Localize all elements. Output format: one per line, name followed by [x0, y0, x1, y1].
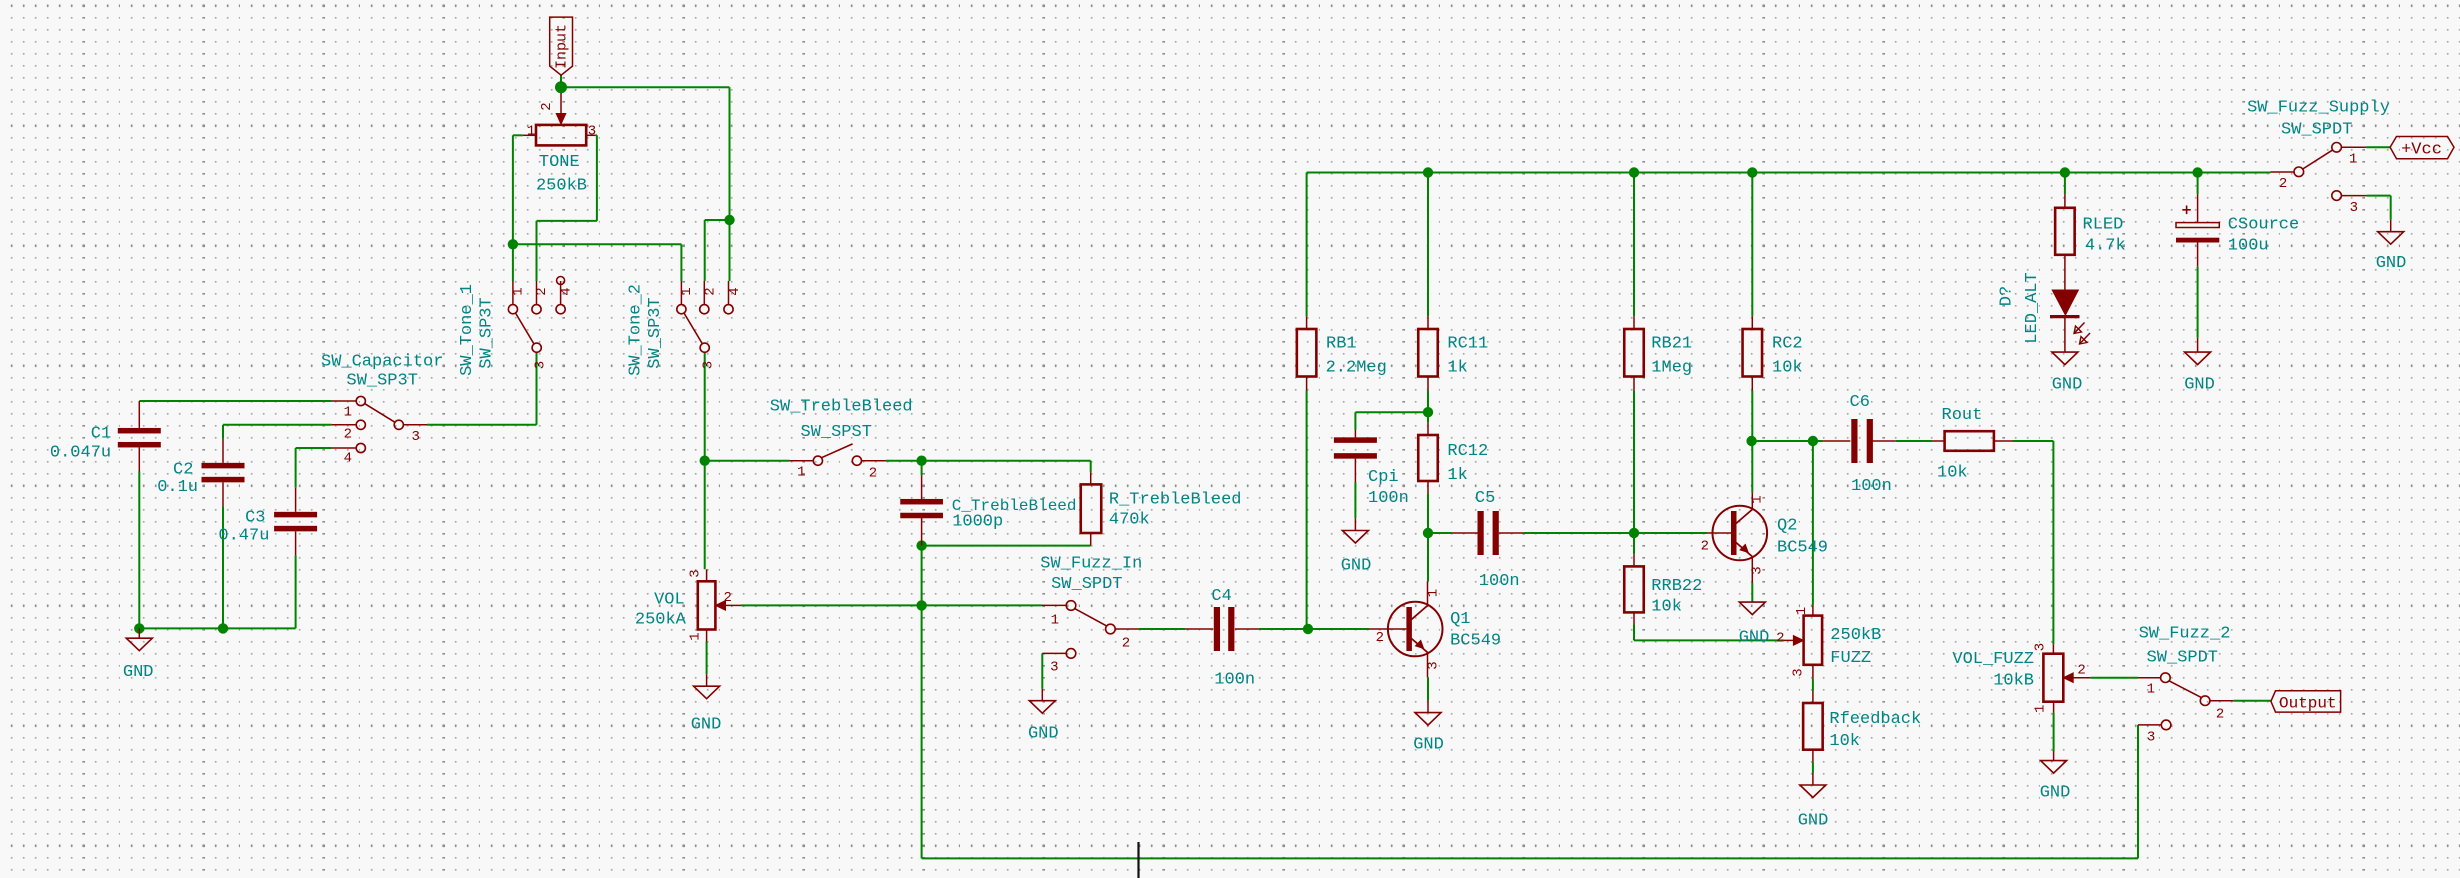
svg-text:RB1: RB1: [1326, 335, 1357, 354]
svg-text:FUZZ: FUZZ: [1830, 649, 1871, 668]
svg-text:1: 1: [797, 465, 805, 481]
svg-text:C5: C5: [1475, 489, 1495, 508]
svg-text:3: 3: [688, 569, 704, 577]
svg-text:2: 2: [2077, 662, 2085, 678]
svg-text:0.1u: 0.1u: [157, 478, 198, 497]
svg-text:BC549: BC549: [1777, 539, 1828, 558]
svg-text:2: 2: [1376, 630, 1384, 646]
svg-text:3: 3: [2032, 643, 2048, 651]
svg-text:GND: GND: [1798, 812, 1829, 831]
svg-text:3: 3: [2350, 200, 2358, 216]
svg-text:250kB: 250kB: [536, 177, 587, 196]
svg-text:0.047u: 0.047u: [50, 443, 111, 462]
svg-text:SW_SPST: SW_SPST: [801, 423, 872, 442]
svg-text:4: 4: [727, 287, 743, 295]
svg-text:3: 3: [1050, 660, 1058, 676]
svg-text:250kA: 250kA: [635, 611, 687, 630]
svg-text:2: 2: [1122, 636, 1130, 652]
svg-text:100n: 100n: [1214, 671, 1255, 690]
svg-text:SW_SPDT: SW_SPDT: [2281, 121, 2352, 140]
svg-text:2: 2: [539, 102, 555, 110]
svg-text:1: 1: [2349, 152, 2357, 168]
svg-text:GND: GND: [2184, 376, 2215, 395]
svg-text:GND: GND: [1739, 629, 1770, 648]
svg-text:SW_Fuzz_2: SW_Fuzz_2: [2139, 625, 2231, 644]
svg-text:Cpi: Cpi: [1368, 468, 1399, 487]
svg-text:LED_ALT: LED_ALT: [2023, 272, 2042, 343]
svg-text:SW_Capacitor: SW_Capacitor: [321, 353, 443, 372]
svg-text:1: 1: [1794, 607, 1810, 615]
svg-text:D?: D?: [1998, 286, 2017, 306]
svg-text:3: 3: [533, 361, 549, 369]
svg-text:1000p: 1000p: [952, 513, 1003, 532]
svg-text:Q1: Q1: [1450, 610, 1470, 629]
svg-text:VOL: VOL: [654, 591, 685, 610]
svg-text:BC549: BC549: [1450, 632, 1501, 651]
svg-text:RB21: RB21: [1651, 335, 1692, 354]
svg-text:GND: GND: [691, 716, 722, 735]
svg-text:SW_SP3T: SW_SP3T: [347, 372, 418, 391]
svg-text:2: 2: [703, 287, 719, 295]
svg-text:3: 3: [412, 429, 420, 445]
svg-text:SW_SP3T: SW_SP3T: [646, 297, 665, 368]
svg-text:C3: C3: [245, 509, 265, 528]
svg-text:GND: GND: [2040, 784, 2071, 803]
svg-text:RC2: RC2: [1772, 335, 1803, 354]
svg-text:RLED: RLED: [2083, 215, 2124, 234]
svg-text:4: 4: [558, 287, 574, 295]
svg-text:SW_Fuzz_In: SW_Fuzz_In: [1040, 555, 1142, 574]
svg-text:RC11: RC11: [1447, 335, 1488, 354]
svg-text:100n: 100n: [1851, 477, 1892, 496]
svg-text:GND: GND: [1341, 557, 1372, 576]
svg-text:100u: 100u: [2228, 237, 2269, 256]
svg-text:10k: 10k: [1937, 464, 1968, 483]
svg-text:TONE: TONE: [539, 153, 580, 172]
svg-text:GND: GND: [2376, 254, 2407, 273]
svg-text:3: 3: [1790, 668, 1806, 676]
svg-text:3: 3: [588, 123, 596, 139]
svg-text:C2: C2: [173, 460, 193, 479]
svg-text:2: 2: [1701, 539, 1709, 555]
svg-text:2: 2: [1776, 631, 1784, 647]
svg-text:1: 1: [1750, 495, 1766, 503]
svg-text:SW_SPDT: SW_SPDT: [1051, 575, 1122, 594]
svg-text:3: 3: [701, 361, 717, 369]
svg-text:GND: GND: [1413, 736, 1444, 755]
svg-text:3: 3: [2147, 730, 2155, 746]
svg-text:1k: 1k: [1447, 359, 1467, 378]
svg-text:GND: GND: [2052, 376, 2083, 395]
svg-text:4: 4: [344, 451, 352, 467]
svg-text:1: 1: [679, 287, 695, 295]
svg-text:10k: 10k: [1829, 732, 1860, 751]
svg-text:3: 3: [1426, 661, 1442, 669]
svg-text:RRB22: RRB22: [1651, 577, 1702, 596]
svg-text:Input: Input: [554, 24, 571, 69]
svg-text:2: 2: [344, 427, 352, 443]
svg-text:SW_Fuzz_Supply: SW_Fuzz_Supply: [2247, 99, 2390, 118]
svg-text:SW_SP3T: SW_SP3T: [478, 297, 497, 368]
svg-text:470k: 470k: [1109, 511, 1150, 530]
svg-text:10kB: 10kB: [1993, 672, 2034, 691]
svg-text:VOL_FUZZ: VOL_FUZZ: [1952, 650, 2034, 669]
svg-text:GND: GND: [1028, 725, 1059, 744]
svg-text:Output: Output: [2279, 694, 2337, 712]
svg-text:10k: 10k: [1772, 359, 1803, 378]
svg-text:SW_Tone_1: SW_Tone_1: [458, 284, 477, 376]
svg-text:C1: C1: [91, 425, 111, 444]
svg-text:2: 2: [724, 590, 732, 606]
svg-text:1: 1: [344, 405, 352, 421]
svg-text:RC12: RC12: [1447, 442, 1488, 461]
svg-text:0.47u: 0.47u: [218, 527, 269, 546]
svg-text:2: 2: [2279, 176, 2287, 192]
svg-text:Rfeedback: Rfeedback: [1829, 710, 1921, 729]
svg-text:SW_TrebleBleed: SW_TrebleBleed: [770, 398, 913, 417]
svg-text:1: 1: [2147, 682, 2155, 698]
svg-text:C6: C6: [1850, 393, 1870, 412]
svg-text:2: 2: [534, 287, 550, 295]
svg-text:4.7k: 4.7k: [2085, 237, 2126, 256]
svg-text:1: 1: [2032, 705, 2048, 713]
svg-text:100n: 100n: [1479, 572, 1520, 591]
svg-text:R_TrebleBleed: R_TrebleBleed: [1109, 491, 1242, 510]
svg-text:Q2: Q2: [1777, 517, 1797, 536]
svg-text:SW_SPDT: SW_SPDT: [2147, 649, 2218, 668]
svg-text:SW_Tone_2: SW_Tone_2: [627, 284, 646, 376]
svg-text:2: 2: [2216, 707, 2224, 723]
svg-text:1k: 1k: [1447, 466, 1467, 485]
svg-text:GND: GND: [123, 663, 154, 682]
svg-text:10k: 10k: [1651, 598, 1682, 617]
svg-text:C4: C4: [1211, 587, 1231, 606]
svg-text:3: 3: [1750, 566, 1766, 574]
svg-text:1Meg: 1Meg: [1651, 359, 1692, 378]
svg-text:1: 1: [1051, 613, 1059, 629]
svg-text:Rout: Rout: [1942, 406, 1983, 425]
svg-text:1: 1: [511, 287, 527, 295]
svg-text:250kB: 250kB: [1830, 626, 1881, 645]
svg-text:+Vcc: +Vcc: [2401, 140, 2442, 159]
svg-text:100n: 100n: [1368, 489, 1409, 508]
svg-text:2: 2: [869, 465, 877, 481]
svg-text:1: 1: [1426, 589, 1442, 597]
svg-text:CSource: CSource: [2228, 215, 2299, 234]
svg-text:1: 1: [527, 123, 535, 139]
svg-text:2.2Meg: 2.2Meg: [1326, 359, 1387, 378]
svg-text:1: 1: [688, 632, 704, 640]
